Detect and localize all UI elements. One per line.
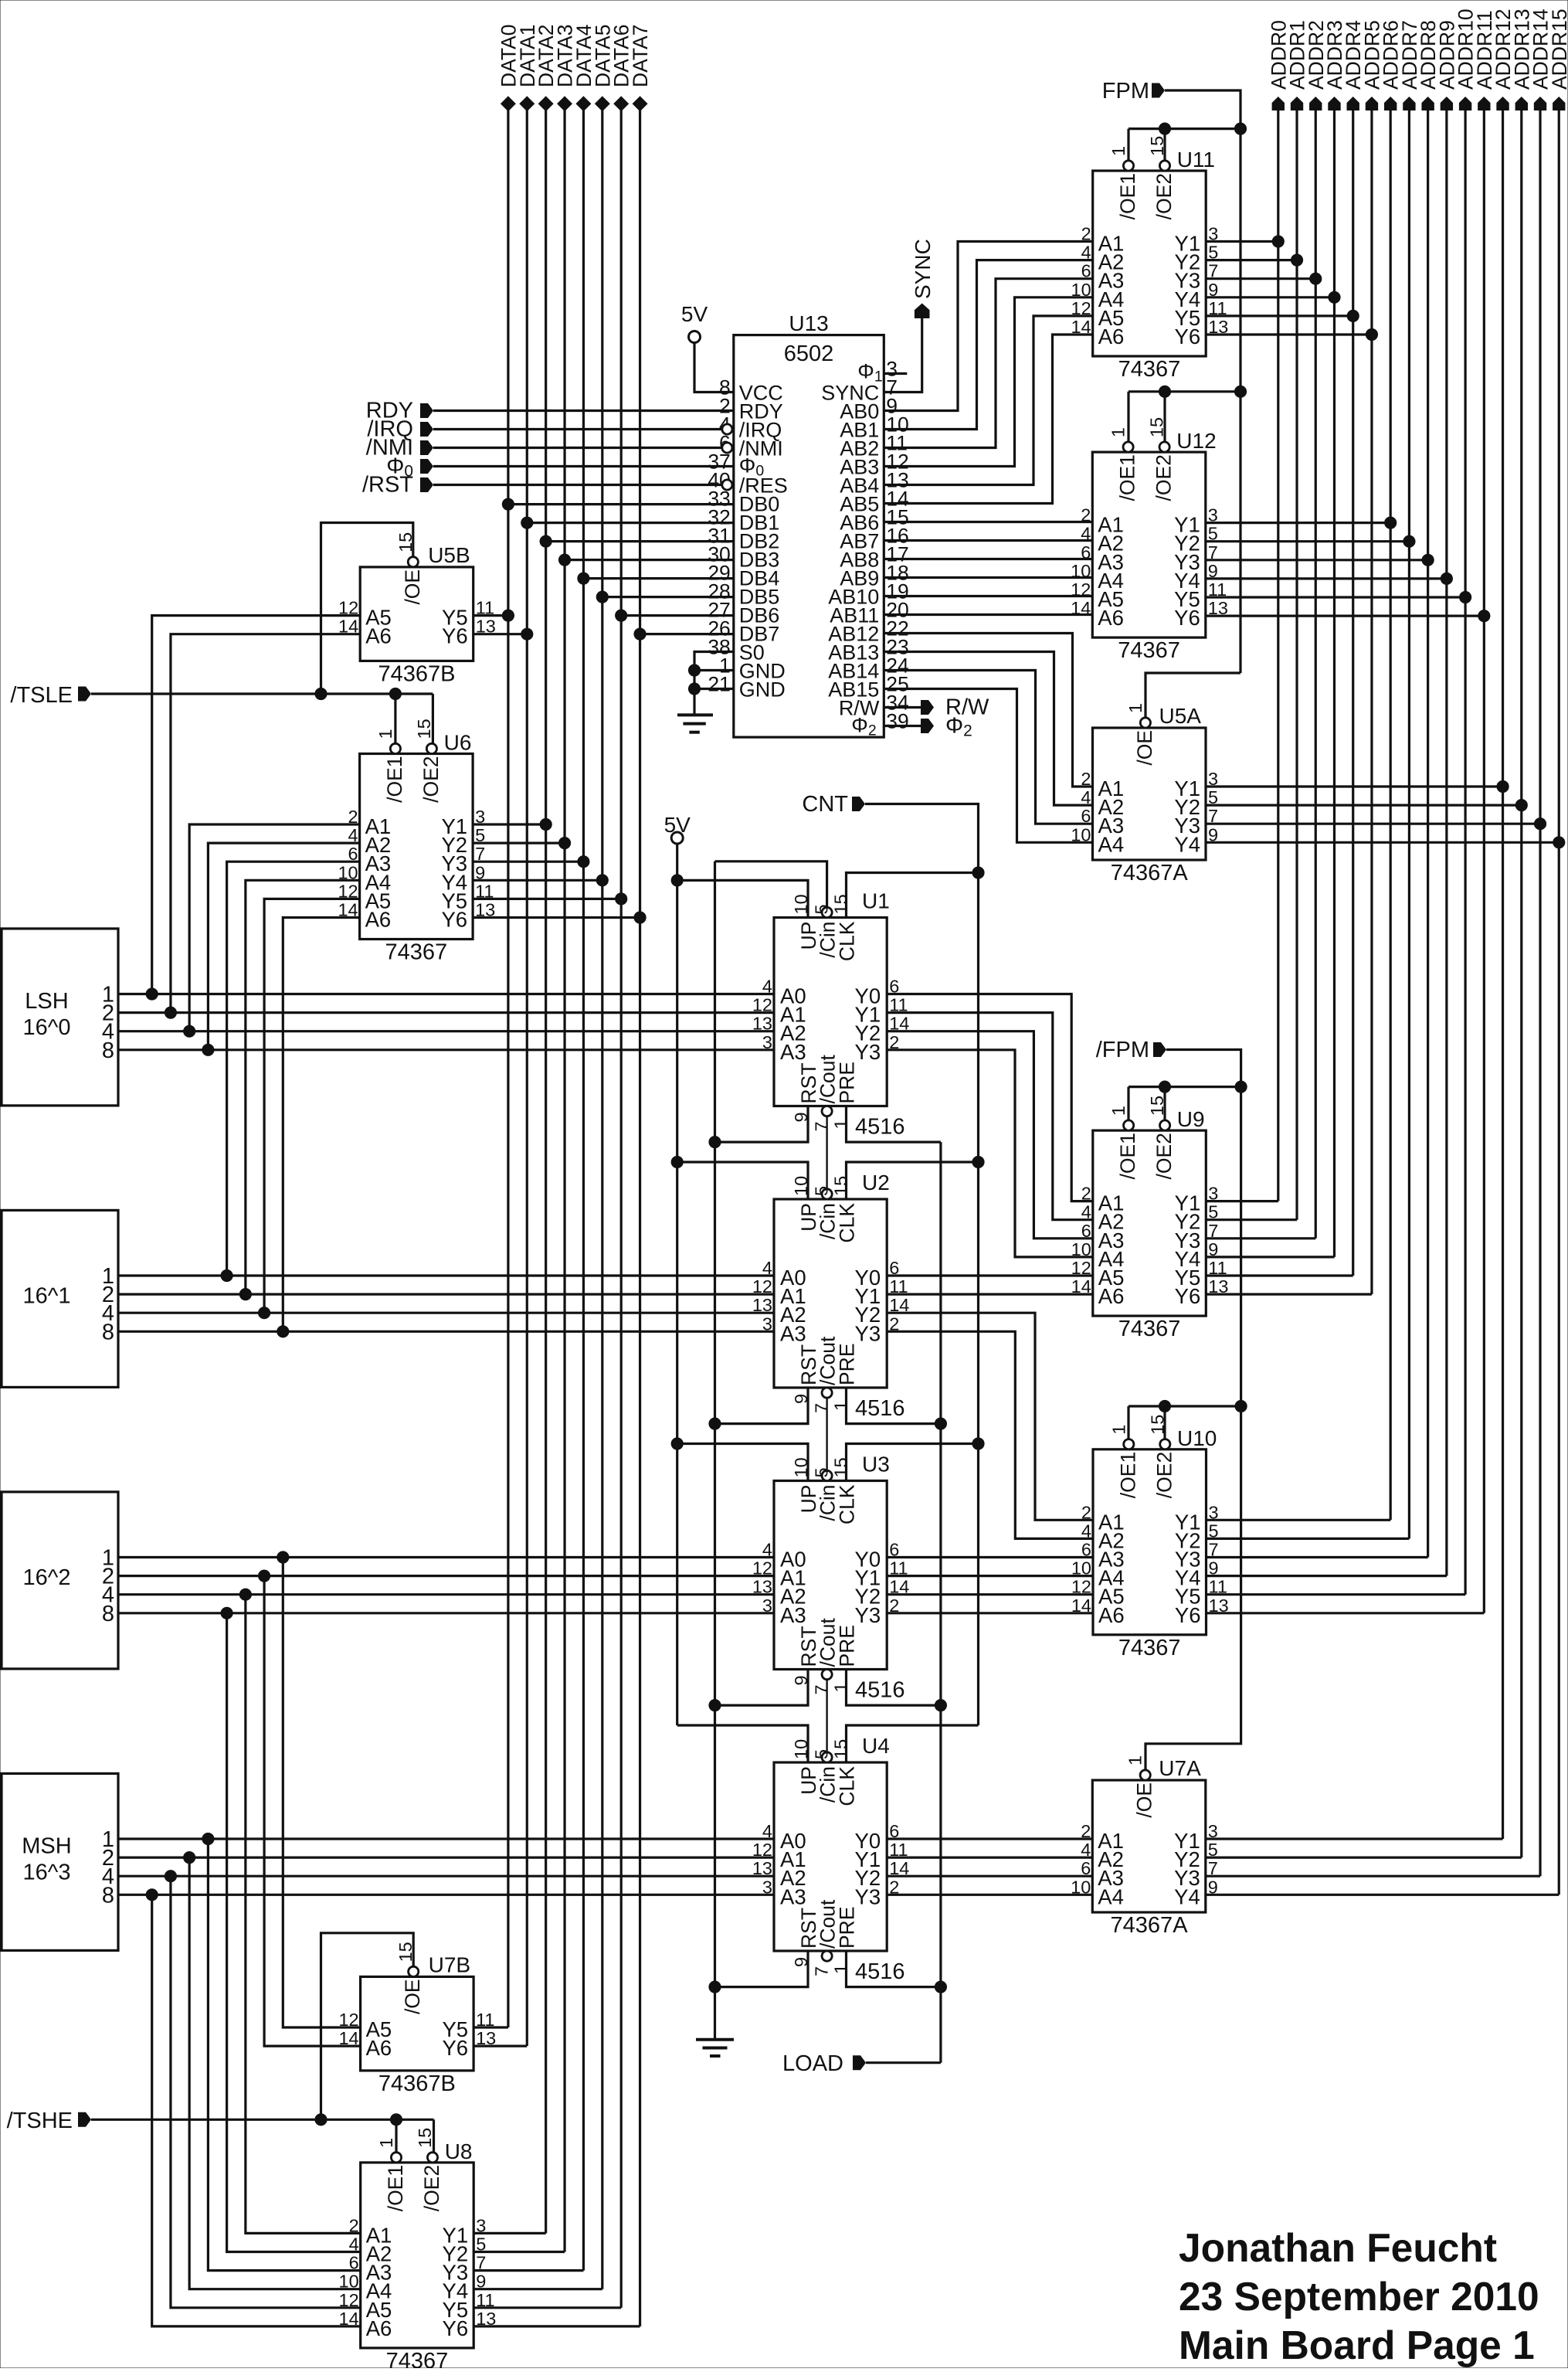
wire U2 RST pin to ground chain bbox=[709, 1388, 808, 1429]
wire bus 16^1 outputs to U2 A0-A3 bbox=[118, 1276, 774, 1331]
wire bus U11 Y1-Y6 outputs to ADDR0-ADDR5 bbox=[1206, 242, 1372, 335]
wire U2 CLK pin to CNT line bbox=[847, 1156, 985, 1199]
input connector /NMI to U13 bbox=[366, 436, 732, 460]
svg-text:8: 8 bbox=[102, 1038, 114, 1063]
svg-text:PRE: PRE bbox=[836, 1062, 859, 1104]
input DIP switch block MSH 16^3 bbox=[2, 1773, 118, 1950]
input connector LOAD to counter PRE pins bbox=[782, 2051, 941, 2076]
node ADDR6 (bus line, arrow terminal, junction) bbox=[1380, 20, 1403, 1520]
input connector /IRQ to U13 bbox=[367, 417, 732, 442]
svg-text:6502: 6502 bbox=[784, 342, 834, 366]
node ADDR4 (bus line, arrow terminal, junction) bbox=[1342, 20, 1365, 1276]
svg-text:/OE2: /OE2 bbox=[420, 2165, 443, 2211]
svg-text:U7A: U7A bbox=[1159, 1756, 1201, 1780]
title block text bbox=[1179, 2225, 1539, 2367]
svg-text:5V: 5V bbox=[681, 302, 708, 326]
svg-text:U3: U3 bbox=[862, 1453, 890, 1477]
svg-text:15: 15 bbox=[831, 1457, 851, 1477]
node DATA4 (bus line, diamond terminal, junctions) bbox=[572, 25, 596, 2271]
svg-text:U8: U8 bbox=[445, 2139, 473, 2163]
svg-text:6: 6 bbox=[1081, 542, 1091, 562]
svg-text:A3: A3 bbox=[780, 1321, 806, 1345]
wire U6 A6 from 16^1 bit 8 bbox=[277, 918, 360, 1337]
svg-text:5: 5 bbox=[812, 1186, 832, 1196]
buffer U7B 74367B (switch read buffer) bbox=[338, 1942, 496, 2096]
input connector FPM to U11/U12/U5A output enables bbox=[1102, 79, 1247, 718]
svg-text:Y6: Y6 bbox=[1175, 1284, 1201, 1308]
svg-text:74367: 74367 bbox=[1118, 1636, 1181, 1660]
svg-text:1: 1 bbox=[1108, 146, 1128, 156]
wire bus U5A Y1-Y4 outputs to ADDR12-ADDR15 bbox=[1206, 787, 1559, 842]
svg-text:12: 12 bbox=[752, 1276, 772, 1296]
svg-text:10: 10 bbox=[1071, 280, 1091, 300]
svg-text:Y6: Y6 bbox=[1175, 1603, 1201, 1627]
wire U7B Y5 Y6 outputs to DATA0 DATA1 bbox=[473, 2027, 527, 2046]
svg-text:CLK: CLK bbox=[836, 1766, 859, 1806]
wire U13 S0 and GND pins to ground bbox=[688, 652, 733, 715]
buffer U11 74367 (address buffer AB0-AB5) bbox=[1071, 136, 1229, 382]
svg-text:7: 7 bbox=[812, 1403, 832, 1413]
svg-text:3: 3 bbox=[762, 1595, 772, 1616]
node ADDR5 (bus line, arrow terminal, junction) bbox=[1360, 20, 1383, 1294]
wire bus LSH 16^0 outputs to U1 A0-A3 bbox=[118, 994, 774, 1050]
wire U1 /Cin pin to ground chain bbox=[715, 861, 827, 908]
svg-text:CLK: CLK bbox=[836, 1203, 859, 1243]
svg-text:U7B: U7B bbox=[429, 1952, 470, 1976]
svg-text:1: 1 bbox=[1108, 427, 1128, 437]
svg-text:Y6: Y6 bbox=[442, 624, 468, 648]
svg-text:Jonathan Feucht: Jonathan Feucht bbox=[1179, 2225, 1497, 2270]
node ADDR7 (bus line, arrow terminal, junction) bbox=[1398, 20, 1421, 1538]
svg-text:CLK: CLK bbox=[836, 921, 859, 961]
buffer U12 74367 (address buffer AB6-AB11) bbox=[1071, 417, 1228, 663]
wire bus U9 Y1-Y6 outputs to ADDR0-ADDR5 bbox=[1206, 1201, 1372, 1295]
svg-text:2: 2 bbox=[1081, 224, 1091, 244]
svg-text:1: 1 bbox=[1108, 1106, 1128, 1116]
wire bus DB0-DB7 from U13 to DATA lines bbox=[508, 505, 734, 634]
input connector PHI0 to U13 bbox=[386, 454, 734, 481]
svg-text:1: 1 bbox=[375, 729, 395, 739]
wire U5B A6 from LSH bit 2 bbox=[165, 634, 360, 1018]
wire ground chain for counter RST and U1 /Cin bbox=[714, 861, 716, 2040]
svg-text:2: 2 bbox=[1081, 505, 1091, 525]
svg-text:13: 13 bbox=[752, 1295, 772, 1315]
counter U1 4516 (box, pins, labels) bbox=[752, 889, 909, 1140]
wire U2 UP pin to 5V rail bbox=[677, 1162, 808, 1199]
svg-text:/OE2: /OE2 bbox=[419, 756, 443, 803]
svg-text:U9: U9 bbox=[1177, 1107, 1205, 1131]
svg-text:Y6: Y6 bbox=[443, 2316, 469, 2340]
node DATA7 (bus line, diamond terminal, junctions) bbox=[629, 25, 652, 2326]
svg-text:Y3: Y3 bbox=[855, 1040, 881, 1064]
svg-text:A4: A4 bbox=[1098, 1884, 1124, 1908]
wire bus U6 Y1-Y6 outputs to DATA2-DATA7 bbox=[473, 824, 640, 918]
wire bus U7A Y1-Y4 outputs to ADDR12-ADDR15 bbox=[1206, 1839, 1559, 1895]
svg-text:74367: 74367 bbox=[1118, 1317, 1181, 1341]
wire U4 RST pin to ground chain bbox=[709, 1951, 808, 1993]
svg-text:74367: 74367 bbox=[386, 2349, 449, 2368]
svg-text:14: 14 bbox=[1071, 598, 1091, 618]
svg-text:U5A: U5A bbox=[1159, 704, 1202, 728]
svg-text:Y3: Y3 bbox=[855, 1884, 881, 1908]
counter U2 4516 (box, pins, labels) bbox=[752, 1171, 909, 1421]
svg-text:4: 4 bbox=[1081, 787, 1091, 807]
U13 right pin names and pin numbers bbox=[821, 358, 909, 739]
node DATA1 (bus line, diamond terminal, junctions) bbox=[516, 25, 539, 2046]
svg-text:12: 12 bbox=[752, 1840, 772, 1860]
svg-text:13: 13 bbox=[752, 1577, 772, 1597]
svg-text:U1: U1 bbox=[862, 889, 890, 913]
svg-text:Y4: Y4 bbox=[1174, 832, 1200, 856]
power 5V supply to U13 VCC bbox=[681, 302, 734, 393]
output connector &#934;2 from U13 bbox=[884, 714, 972, 740]
wire U12 /OE1 /OE2 to FPM line bbox=[1128, 386, 1247, 442]
svg-text:Y3: Y3 bbox=[855, 1321, 881, 1345]
wire U4 UP pin to 5V rail bbox=[677, 1725, 808, 1762]
svg-text:CLK: CLK bbox=[836, 1484, 859, 1524]
svg-text:U12: U12 bbox=[1176, 429, 1216, 453]
wire bus 16^2 outputs to U3 A0-A3 bbox=[118, 1558, 774, 1613]
svg-text:3: 3 bbox=[762, 1313, 772, 1334]
svg-text:LSH: LSH bbox=[25, 989, 68, 1014]
svg-text:Y6: Y6 bbox=[1174, 606, 1200, 630]
svg-text:Y6: Y6 bbox=[1175, 325, 1201, 348]
node ADDR1 (bus line, arrow terminal, junction) bbox=[1286, 20, 1309, 1220]
wire U8 A4 from MSH bit 2 bbox=[184, 1852, 361, 2289]
node ADDR12 (bus line, arrow terminal, junction) bbox=[1492, 8, 1515, 1839]
svg-text:4516: 4516 bbox=[855, 1115, 905, 1140]
svg-text:A6: A6 bbox=[1098, 1284, 1125, 1308]
node ADDR2 (bus line, arrow terminal, junction) bbox=[1305, 20, 1328, 1239]
svg-text:U5B: U5B bbox=[428, 543, 470, 567]
buffer U8 74367 (switch read buffer) bbox=[339, 2128, 497, 2372]
svg-text:A6: A6 bbox=[1098, 1603, 1125, 1627]
node DATA0 (bus line, diamond terminal, junctions) bbox=[497, 25, 520, 2027]
svg-text:1: 1 bbox=[376, 2138, 396, 2148]
svg-text:16^3: 16^3 bbox=[23, 1860, 71, 1884]
node DATA3 (bus line, diamond terminal, junctions) bbox=[554, 25, 577, 2252]
svg-text:16^0: 16^0 bbox=[23, 1015, 71, 1040]
wire U3 UP pin to 5V rail bbox=[677, 1444, 808, 1481]
svg-text:/OE: /OE bbox=[401, 1979, 424, 2014]
wire U6 A2 from LSH bit 8 bbox=[202, 843, 360, 1055]
svg-text:PRE: PRE bbox=[836, 1907, 859, 1949]
svg-text:12: 12 bbox=[1071, 579, 1091, 600]
svg-text:7: 7 bbox=[812, 1966, 832, 1976]
wire U8 A6 from MSH bit 8 bbox=[146, 1889, 361, 2326]
svg-text:/OE1: /OE1 bbox=[1116, 1133, 1139, 1179]
wire U3 RST pin to ground chain bbox=[709, 1670, 808, 1711]
buffer U6 74367 (switch read buffer) bbox=[338, 719, 495, 964]
wire U7B A6 from 16^2 bit 2 bbox=[258, 1570, 360, 2046]
svg-text:13: 13 bbox=[752, 1858, 772, 1878]
svg-text:14: 14 bbox=[1071, 317, 1091, 337]
svg-text:5: 5 bbox=[812, 1749, 832, 1759]
buffer U10 74367 (counter address buffer) bbox=[1071, 1415, 1229, 1660]
svg-text:1: 1 bbox=[1108, 1425, 1128, 1435]
svg-text:15: 15 bbox=[831, 1176, 851, 1196]
buffer U7A 74367A (counter address buffer) bbox=[1071, 1755, 1218, 1938]
input DIP switch block 16^1 bbox=[2, 1210, 118, 1387]
svg-text:3: 3 bbox=[762, 1877, 772, 1897]
input connector /TSLE to U5B/U6 output enables bbox=[10, 523, 433, 744]
wire U8 A1 from 16^2 bit 4 bbox=[239, 1589, 360, 2233]
node ADDR13 (bus line, arrow terminal, junction) bbox=[1510, 8, 1533, 1857]
svg-text:4: 4 bbox=[762, 1540, 772, 1560]
svg-text:8: 8 bbox=[102, 1883, 114, 1908]
svg-text:U6: U6 bbox=[444, 731, 472, 755]
wire U1 CLK pin to CNT line bbox=[847, 867, 985, 918]
svg-text:12: 12 bbox=[752, 995, 772, 1015]
wire U1 UP pin to 5V rail bbox=[677, 880, 808, 917]
svg-text:A3: A3 bbox=[780, 1884, 806, 1908]
svg-text:5: 5 bbox=[812, 1467, 832, 1477]
buffer U5A 74367A (address buffer AB12-AB15) bbox=[1071, 703, 1218, 885]
wire U8 A5 from MSH bit 4 bbox=[165, 1871, 360, 2308]
wire U1/Cout to U2/Cin cascade bbox=[826, 1116, 827, 1189]
counter U3 4516 (box, pins, labels) bbox=[752, 1453, 909, 1703]
svg-text:/OE1: /OE1 bbox=[384, 2165, 407, 2211]
svg-text:FPM: FPM bbox=[1102, 79, 1149, 104]
svg-text:74367: 74367 bbox=[1118, 357, 1181, 382]
svg-text:/OE1: /OE1 bbox=[1116, 454, 1139, 501]
wire U9 /OE1 /OE2 to /FPM line bbox=[1128, 1081, 1241, 1120]
svg-text:15: 15 bbox=[414, 719, 434, 739]
svg-text:PRE: PRE bbox=[836, 1344, 859, 1386]
svg-text:A6: A6 bbox=[366, 2036, 392, 2060]
buffer U9 74367 (counter address buffer) bbox=[1071, 1096, 1229, 1341]
counter U4 4516 (box, pins, labels) bbox=[752, 1734, 909, 1984]
svg-text:/OE2: /OE2 bbox=[1152, 173, 1176, 219]
svg-text:15: 15 bbox=[831, 894, 851, 914]
svg-text:/OE: /OE bbox=[1133, 1782, 1156, 1818]
svg-text:8: 8 bbox=[102, 1320, 114, 1344]
wire U1 PRE pin to LOAD line bbox=[847, 1106, 941, 1143]
svg-text:4516: 4516 bbox=[855, 1678, 905, 1703]
svg-text:21: 21 bbox=[708, 673, 730, 696]
wire bus U10 Y1-Y6 outputs to ADDR6-ADDR11 bbox=[1207, 1520, 1485, 1613]
svg-text:74367B: 74367B bbox=[378, 661, 455, 686]
svg-text:Y6: Y6 bbox=[442, 2036, 468, 2060]
node DATA5 (bus line, diamond terminal, junctions) bbox=[591, 25, 614, 2289]
wire U7B A5 from 16^2 bit 1 bbox=[277, 1551, 361, 2027]
svg-text:74367A: 74367A bbox=[1111, 861, 1189, 885]
svg-text:10: 10 bbox=[1071, 824, 1091, 844]
svg-text:/RST: /RST bbox=[362, 473, 413, 498]
svg-text:1: 1 bbox=[831, 1401, 851, 1411]
wire bus AB6-AB11 from U13 to U12 inputs bbox=[884, 522, 1092, 615]
node ADDR9 (bus line, arrow terminal, junction) bbox=[1435, 20, 1458, 1575]
wire U10 /OE1 /OE2 to /FPM line bbox=[1128, 1400, 1241, 1439]
svg-text:2: 2 bbox=[1081, 769, 1091, 789]
svg-text:/TSHE: /TSHE bbox=[7, 2109, 73, 2133]
svg-text:1: 1 bbox=[831, 1119, 851, 1129]
wire U8 A2 from 16^2 bit 8 bbox=[221, 1607, 361, 2251]
svg-text:U2: U2 bbox=[862, 1171, 890, 1194]
svg-text:74367A: 74367A bbox=[1111, 1913, 1189, 1938]
wire bus AB0-AB5 from U13 to U11 inputs bbox=[884, 242, 1092, 504]
svg-text:U11: U11 bbox=[1177, 148, 1215, 172]
svg-text:/OE: /OE bbox=[401, 569, 424, 605]
svg-text:74367: 74367 bbox=[1118, 638, 1180, 663]
wire U2 Y2 Y3 outputs to U10 A1 A2 bbox=[887, 1313, 1093, 1538]
svg-text:MSH: MSH bbox=[22, 1833, 71, 1858]
svg-text:6: 6 bbox=[1081, 261, 1091, 281]
node ADDR0 (bus line, arrow terminal, junction) bbox=[1267, 20, 1290, 1201]
svg-text:10: 10 bbox=[1071, 561, 1091, 581]
svg-text:1: 1 bbox=[831, 1682, 851, 1692]
U13 left pin names and pin numbers bbox=[708, 376, 788, 702]
svg-text:Y4: Y4 bbox=[1174, 1884, 1200, 1908]
wire bus AB12-AB15 from U13 to U5A inputs bbox=[884, 634, 1092, 843]
input connector /TSHE to U7B/U8 output enables bbox=[7, 1933, 434, 2153]
wire U2/Cout to U3/Cin cascade bbox=[826, 1398, 827, 1470]
wire U6 A4 from 16^1 bit 2 bbox=[239, 880, 359, 1300]
svg-text:39: 39 bbox=[886, 710, 908, 733]
power 5V rail for counter UP pins bbox=[664, 813, 691, 1725]
svg-text:1: 1 bbox=[831, 1964, 851, 1974]
svg-text:/OE1: /OE1 bbox=[1116, 173, 1139, 219]
wire U3 CLK pin to CNT line bbox=[847, 1438, 985, 1481]
svg-text:1: 1 bbox=[1125, 703, 1145, 713]
svg-text:74367: 74367 bbox=[385, 940, 448, 965]
node ADDR11 (bus line, arrow terminal, junction) bbox=[1473, 10, 1496, 1612]
svg-text:Y6: Y6 bbox=[441, 908, 467, 932]
svg-text:4: 4 bbox=[1081, 243, 1091, 263]
node DATA6 (bus line, diamond terminal, junctions) bbox=[610, 25, 633, 2308]
wire U5B Y5 Y6 outputs to DATA0 DATA1 bbox=[473, 616, 528, 634]
U13 pin 3 stub (&#934;1) bbox=[884, 372, 907, 375]
svg-text:7: 7 bbox=[812, 1684, 832, 1694]
svg-text:16^2: 16^2 bbox=[23, 1565, 71, 1590]
svg-text:SYNC: SYNC bbox=[911, 239, 935, 299]
svg-text:Y3: Y3 bbox=[855, 1603, 881, 1627]
svg-text:7: 7 bbox=[812, 1121, 832, 1131]
svg-text:74367B: 74367B bbox=[378, 2071, 456, 2096]
svg-text:13: 13 bbox=[752, 1014, 772, 1034]
svg-text:A6: A6 bbox=[1098, 325, 1125, 348]
svg-text:U4: U4 bbox=[862, 1734, 890, 1758]
svg-text:/OE1: /OE1 bbox=[1116, 1452, 1139, 1498]
svg-text:12: 12 bbox=[1071, 298, 1091, 318]
svg-text:15: 15 bbox=[831, 1739, 851, 1759]
svg-text:CNT: CNT bbox=[802, 792, 848, 817]
wire U11 /OE1 /OE2 to FPM line bbox=[1128, 123, 1240, 161]
svg-text:U13: U13 bbox=[789, 311, 828, 335]
input connector /FPM to U9/U10/U7A output enables bbox=[1096, 1038, 1247, 1770]
input connector /RST to U13 bbox=[362, 473, 732, 498]
wire U5B A5 from LSH bit 1 bbox=[146, 616, 360, 1001]
svg-text:/FPM: /FPM bbox=[1096, 1038, 1149, 1062]
svg-text:DATA7: DATA7 bbox=[629, 25, 652, 87]
wire U6 A3 from 16^1 bit 1 bbox=[221, 861, 360, 1281]
svg-text:12: 12 bbox=[752, 1558, 772, 1579]
svg-text:A6: A6 bbox=[366, 2316, 392, 2340]
input DIP switch block LSH 16^0 bbox=[2, 929, 118, 1106]
input connector CNT to counter clocks bbox=[802, 792, 978, 1725]
svg-text:1: 1 bbox=[1125, 1755, 1145, 1765]
svg-text:ADDR15: ADDR15 bbox=[1548, 8, 1568, 90]
wire PRE chain line bbox=[939, 1142, 942, 2063]
svg-text:/OE1: /OE1 bbox=[383, 756, 406, 803]
node ADDR8 (bus line, arrow terminal, junction) bbox=[1417, 20, 1440, 1557]
svg-text:LOAD: LOAD bbox=[782, 2051, 843, 2076]
wire U3 PRE pin to LOAD line bbox=[847, 1670, 947, 1711]
svg-text:U10: U10 bbox=[1177, 1426, 1217, 1450]
svg-text:/OE2: /OE2 bbox=[1152, 1452, 1176, 1498]
svg-text:A6: A6 bbox=[365, 624, 392, 648]
svg-text:A3: A3 bbox=[780, 1040, 806, 1064]
svg-text:16^1: 16^1 bbox=[23, 1283, 71, 1308]
svg-text:6: 6 bbox=[1081, 806, 1091, 826]
output connector SYNC from U13 bbox=[884, 239, 935, 392]
svg-text:A4: A4 bbox=[1098, 832, 1125, 856]
svg-text:PRE: PRE bbox=[836, 1625, 859, 1667]
svg-text:8: 8 bbox=[102, 1602, 114, 1626]
wire U1 RST pin to ground chain bbox=[709, 1106, 808, 1148]
svg-text:GND: GND bbox=[739, 678, 786, 702]
svg-text:4516: 4516 bbox=[855, 1396, 905, 1421]
wire bus U3 Y0-Y3 outputs to U10 A3-A6 bbox=[887, 1558, 1093, 1613]
node ADDR15 (bus line, arrow terminal, junction) bbox=[1548, 8, 1568, 1895]
svg-text:/OE: /OE bbox=[1133, 730, 1156, 766]
svg-text:4: 4 bbox=[1081, 524, 1091, 544]
svg-text:/TSLE: /TSLE bbox=[10, 683, 73, 708]
wire U4 CLK pin to CNT line bbox=[847, 1725, 979, 1762]
ground symbol at U13 bbox=[677, 715, 713, 732]
IC U13 6502 CPU (box and title) bbox=[734, 311, 884, 737]
input DIP switch block 16^2 bbox=[2, 1492, 118, 1669]
svg-text:4: 4 bbox=[762, 977, 772, 997]
wire bus MSH 16^3 outputs to U4 A0-A3 bbox=[118, 1839, 774, 1895]
svg-text:3: 3 bbox=[762, 1032, 772, 1052]
svg-text:4516: 4516 bbox=[855, 1959, 905, 1984]
buffer U5B 74367B (switch read buffer) bbox=[338, 532, 496, 687]
svg-text:15: 15 bbox=[415, 2128, 435, 2148]
wire U6 A5 from 16^1 bit 4 bbox=[258, 899, 359, 1318]
node ADDR3 (bus line, arrow terminal, junction) bbox=[1323, 20, 1346, 1257]
wire bus U1 Y0-Y3 outputs to U9 A1-A4 bbox=[887, 994, 1093, 1257]
wire U6 A1 from LSH bit 4 bbox=[184, 824, 360, 1037]
svg-text:23 September 2010: 23 September 2010 bbox=[1179, 2274, 1539, 2319]
wire bus U4 Y0-Y3 outputs to U7A A1-A4 bbox=[887, 1839, 1092, 1895]
svg-text:/OE2: /OE2 bbox=[1152, 454, 1176, 501]
svg-text:A6: A6 bbox=[365, 908, 392, 932]
node DATA2 (bus line, diamond terminal, junctions) bbox=[535, 25, 558, 2234]
svg-text:5: 5 bbox=[812, 904, 832, 914]
wire U2 Y0 Y1 outputs to U9 A5 A6 bbox=[887, 1276, 1093, 1294]
wire U8 A3 from MSH bit 1 bbox=[202, 1833, 361, 2270]
svg-text:4: 4 bbox=[762, 1258, 772, 1278]
wire bus U12 Y1-Y6 outputs to ADDR6-ADDR11 bbox=[1206, 523, 1485, 617]
input connector RDY to U13 bbox=[366, 399, 734, 423]
svg-text:A6: A6 bbox=[1098, 606, 1124, 630]
svg-text:/OE2: /OE2 bbox=[1152, 1133, 1176, 1179]
ground symbol below U4 bbox=[696, 2040, 734, 2056]
svg-text:A3: A3 bbox=[780, 1603, 806, 1627]
output connector R/W from U13 bbox=[884, 695, 989, 720]
svg-text:4: 4 bbox=[762, 1821, 772, 1841]
wire U3/Cout to U4/Cin cascade bbox=[826, 1680, 827, 1752]
node ADDR10 (bus line, arrow terminal, junction) bbox=[1454, 8, 1478, 1594]
node ADDR14 (bus line, arrow terminal, junction) bbox=[1529, 8, 1553, 1876]
wire U4 PRE pin to LOAD line bbox=[847, 1951, 947, 1993]
wire bus U8 Y1-Y6 outputs to DATA2-DATA7 bbox=[473, 2233, 640, 2326]
svg-text:Main Board Page 1: Main Board Page 1 bbox=[1179, 2323, 1535, 2367]
wire U2 PRE pin to LOAD line bbox=[847, 1388, 947, 1429]
